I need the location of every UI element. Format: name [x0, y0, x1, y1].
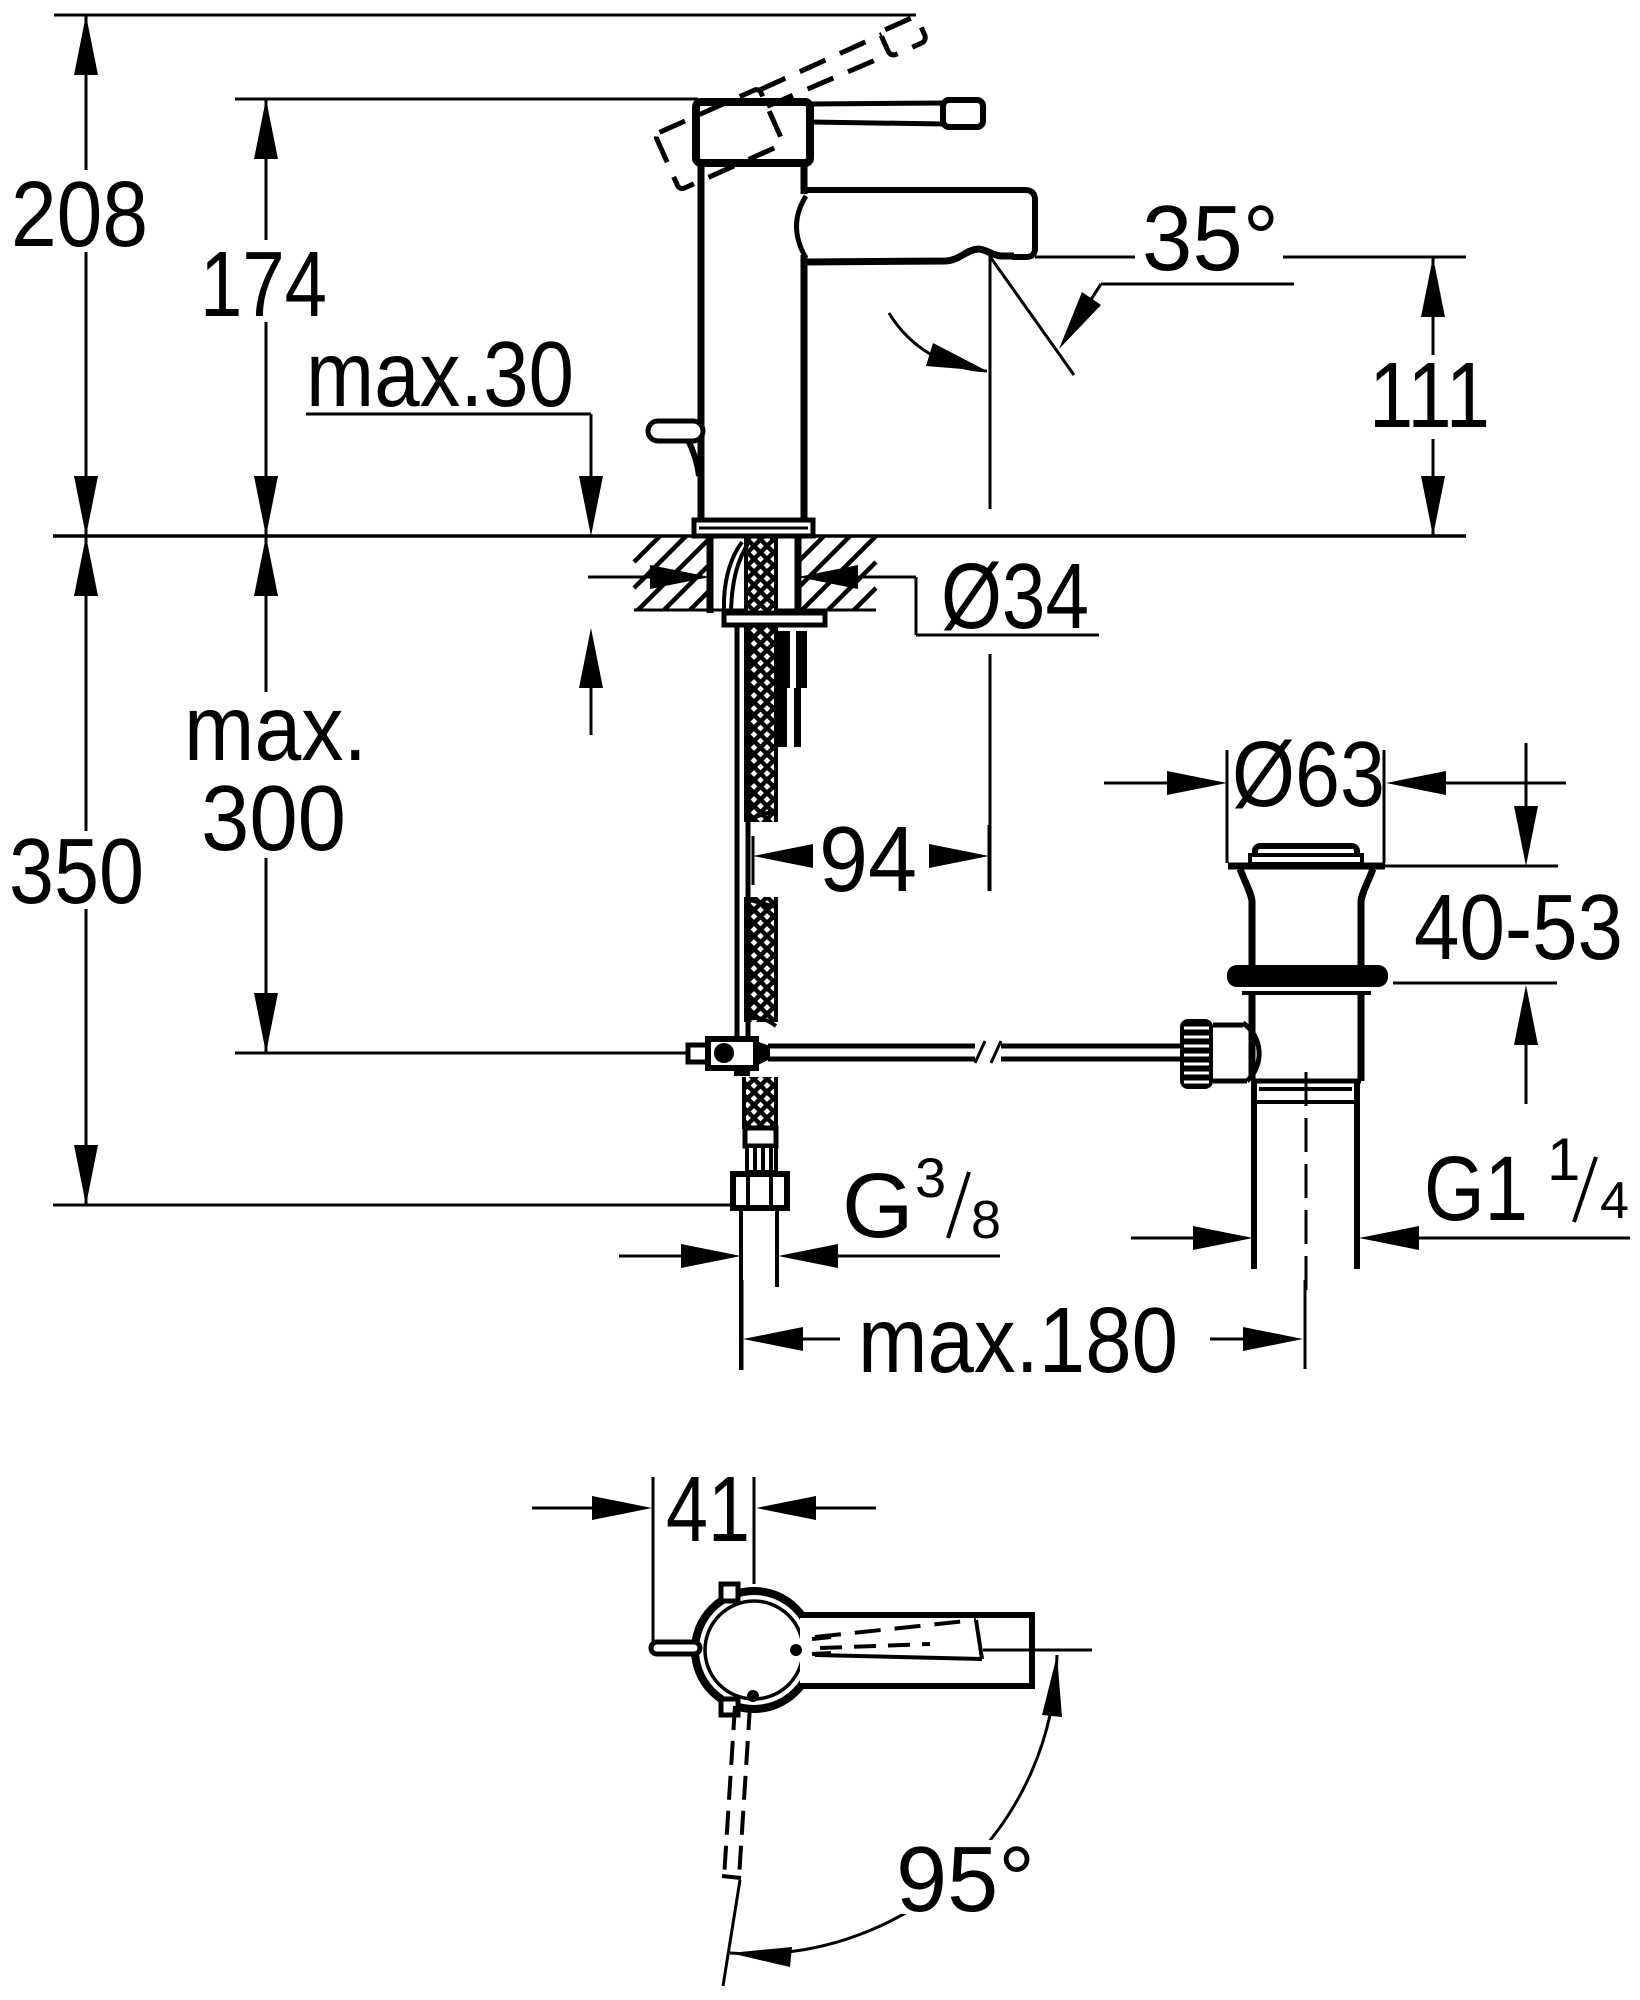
dim 350 vertical line: [85, 536, 88, 831]
dim 94 arrows: [753, 844, 813, 868]
faucet supply hose braided section lower: [744, 1077, 776, 1129]
dim O34 leader and label: [915, 577, 918, 635]
top view spout rectangle: [800, 1615, 1032, 1686]
svg-text:300: 300: [201, 766, 346, 870]
dim 174 vertical line: [265, 99, 268, 240]
wire top reference line (spout height datum): [54, 14, 916, 17]
top view rod swing line: [723, 1880, 740, 1986]
faucet mounting washer under counter: [724, 613, 825, 625]
svg-text:Ø63: Ø63: [1232, 722, 1385, 826]
svg-text:8: 8: [971, 1190, 1001, 1250]
dim max.300 vertical line: [265, 536, 268, 692]
node dim line 208/350 bottom reference: [53, 1204, 739, 1207]
faucet supply hose braided section middle: [746, 897, 776, 1026]
faucet lever handle: [810, 103, 944, 104]
svg-text:max.: max.: [184, 676, 367, 780]
pop-up horizontal rod left segment: [768, 1044, 975, 1049]
top view key tab lower: [721, 1699, 738, 1715]
dim 35deg angle arc: [889, 313, 987, 371]
top view lever outline: [812, 1637, 831, 1639]
top view screw dots: [790, 1644, 802, 1656]
node hatch right of shank: [798, 536, 876, 610]
dim max.30 lower arrow: [590, 688, 593, 735]
drain adjustment knurled knob: [1180, 1019, 1213, 1089]
dim 35deg leader line: [1101, 283, 1294, 286]
faucet shank through counter: [707, 536, 714, 613]
top view rod swung down dashed: [724, 1706, 735, 1878]
dim 41 arrows and ticks: [532, 1507, 592, 1510]
faucet supply hose braided section upper: [746, 537, 776, 822]
top view outer cap ring: [695, 1591, 813, 1709]
pop-up rod coupler end cap: [688, 1045, 708, 1062]
svg-text:94: 94: [819, 807, 917, 911]
dim 40-53 vertical line: [1525, 743, 1528, 806]
hose connection nut G3/8: [733, 1174, 787, 1208]
top view key tab upper: [721, 1584, 738, 1601]
drain tailpipe G1 1/4: [1251, 1081, 1257, 1269]
svg-text:G1: G1: [1424, 1138, 1528, 1240]
svg-text:111: 111: [1369, 343, 1490, 447]
faucet pop-up rod knob at rear: [648, 421, 703, 441]
dim G1 1/4 arrows: [1131, 1237, 1193, 1240]
faucet threaded stud with nut below washer: [774, 631, 807, 747]
drain neck: [1240, 869, 1252, 966]
top view pop-up rod knob bar: [651, 1642, 700, 1654]
faucet spout underside with aerator wave: [804, 249, 1014, 262]
svg-text:3: 3: [915, 1146, 946, 1209]
dim O34 arrows: [588, 576, 650, 579]
faucet base flange: [694, 520, 813, 536]
dim max.180 extension ticks: [741, 1280, 744, 1370]
node countertop surface line: [53, 534, 1466, 538]
dim 95deg arc: [730, 1655, 1057, 1954]
wire second hose curving in shank: [724, 542, 742, 611]
dim O63 arrows and ticks: [1104, 782, 1167, 785]
hose connection tube G3/8: [739, 1208, 743, 1370]
drain tailpipe centerline: [1305, 1072, 1308, 1298]
hose ferrule fitting: [745, 1128, 776, 1146]
dim G3/8 arrows: [619, 1255, 681, 1258]
node pop-up rod level reference: [235, 1052, 688, 1055]
top view centerline right: [983, 1649, 1092, 1652]
svg-text:40-53: 40-53: [1414, 875, 1623, 979]
drain body below seal: [1242, 991, 1371, 995]
faucet pop-up vertical rod: [735, 625, 740, 1039]
faucet spout left cylinder arc: [797, 196, 807, 258]
pop-up rod break marks: [975, 1041, 985, 1063]
dim 35deg vertical extension from spout outlet: [989, 252, 992, 509]
dim 111 top reference line: [1035, 256, 1135, 259]
dim 35deg spray direction line: [991, 258, 1074, 375]
dim 111 vertical line: [1432, 257, 1435, 355]
pop-up rod coupler block: [708, 1039, 756, 1068]
dim 208 vertical line: [85, 15, 88, 170]
drain pop-up waste push cap: [1255, 846, 1357, 857]
wire cap-top reference line 174 datum: [235, 98, 698, 101]
top view inner body circle: [705, 1601, 803, 1699]
svg-text:35°: 35°: [1142, 186, 1279, 290]
svg-text:max.30: max.30: [306, 322, 574, 426]
dim max.180 arrows: [743, 1327, 803, 1351]
drain flange top disc: [1228, 863, 1385, 870]
svg-text:1: 1: [1547, 1126, 1580, 1193]
svg-text:174: 174: [200, 232, 327, 336]
pop-up horizontal rod right segment: [1001, 1044, 1180, 1049]
drain knob shaft: [1213, 1023, 1243, 1028]
svg-text:350: 350: [9, 819, 144, 923]
faucet spout outline: [806, 190, 1035, 257]
faucet body column: [698, 163, 705, 521]
svg-text:G: G: [842, 1155, 914, 1257]
svg-text:95°: 95°: [896, 1827, 1035, 1931]
faucet lever raised position dashed: [654, 16, 942, 190]
faucet cartridge cap: [696, 102, 810, 163]
svg-text:4: 4: [1600, 1172, 1629, 1230]
svg-text:41: 41: [666, 1457, 750, 1561]
dim 94 extension ticks: [752, 836, 755, 885]
svg-text:208: 208: [11, 162, 148, 266]
dim 95deg label: [893, 1840, 1043, 1914]
node hatch left of shank: [634, 536, 710, 610]
hose threaded section: [747, 1146, 776, 1172]
svg-text:Ø34: Ø34: [941, 544, 1089, 648]
drain rubber seal: [1227, 965, 1388, 987]
svg-text:max.180: max.180: [858, 1288, 1178, 1392]
node countertop underside line: [634, 609, 876, 612]
